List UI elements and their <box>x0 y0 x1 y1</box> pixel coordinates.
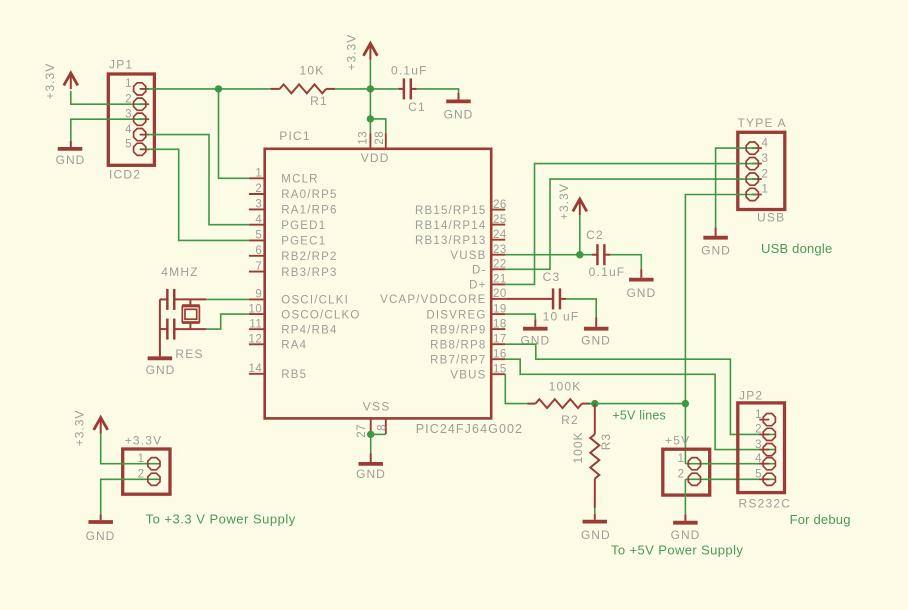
svg-text:26: 26 <box>493 199 507 211</box>
svg-text:ICD2: ICD2 <box>109 167 141 181</box>
svg-text:VSS: VSS <box>363 399 391 413</box>
svg-text:RB14/RP14: RB14/RP14 <box>415 220 487 232</box>
svg-text:1: 1 <box>125 78 132 90</box>
svg-text:24: 24 <box>493 229 507 241</box>
svg-text:2: 2 <box>762 168 769 180</box>
svg-text:JP2: JP2 <box>739 389 763 403</box>
svg-text:GND: GND <box>356 467 386 481</box>
svg-text:11: 11 <box>249 318 262 330</box>
svg-text:GND: GND <box>581 528 611 542</box>
svg-text:27: 27 <box>356 424 368 438</box>
svg-text:RB5: RB5 <box>281 369 307 381</box>
svg-text:16: 16 <box>493 348 507 360</box>
svg-text:14: 14 <box>249 363 263 375</box>
svg-text:100K: 100K <box>571 431 585 463</box>
svg-text:12: 12 <box>249 334 263 346</box>
svg-text:4: 4 <box>762 137 769 149</box>
svg-text:PGEC1: PGEC1 <box>281 236 326 248</box>
svg-text:+3.3V: +3.3V <box>125 434 163 448</box>
svg-text:OSCI/CLKI: OSCI/CLKI <box>281 295 349 307</box>
svg-text:+5V lines: +5V lines <box>612 409 666 423</box>
svg-text:23: 23 <box>493 244 507 256</box>
svg-text:VUSB: VUSB <box>450 250 486 262</box>
svg-text:RS232C: RS232C <box>739 497 792 511</box>
svg-text:C3: C3 <box>543 270 561 284</box>
svg-text:3: 3 <box>762 153 769 165</box>
svg-text:D+: D+ <box>469 280 486 292</box>
svg-text:25: 25 <box>493 214 507 226</box>
svg-text:10: 10 <box>249 303 263 315</box>
svg-text:5: 5 <box>255 230 262 242</box>
svg-text:8: 8 <box>377 424 389 431</box>
svg-text:VCAP/VDDCORE: VCAP/VDDCORE <box>380 294 486 306</box>
svg-text:6: 6 <box>255 245 262 257</box>
svg-text:D-: D- <box>472 265 487 277</box>
svg-text:+3.3V: +3.3V <box>43 63 57 100</box>
svg-text:R3: R3 <box>599 433 613 450</box>
svg-text:28: 28 <box>374 131 386 145</box>
svg-text:4MHZ: 4MHZ <box>161 265 198 279</box>
svg-text:7: 7 <box>255 261 262 273</box>
svg-text:To +5V Power Supply: To +5V Power Supply <box>611 543 743 558</box>
svg-text:MCLR: MCLR <box>281 174 318 186</box>
svg-text:4: 4 <box>255 214 262 226</box>
svg-text:RB7/RP7: RB7/RP7 <box>430 354 486 366</box>
svg-text:1: 1 <box>678 453 685 465</box>
svg-text:100K: 100K <box>549 380 582 394</box>
svg-text:GND: GND <box>86 529 116 543</box>
svg-text:1: 1 <box>255 168 262 180</box>
svg-text:22: 22 <box>493 259 507 271</box>
svg-text:+3.3V: +3.3V <box>345 34 359 71</box>
svg-text:RA1/RP6: RA1/RP6 <box>281 205 337 217</box>
svg-text:PIC1: PIC1 <box>279 129 310 143</box>
svg-text:RA4: RA4 <box>281 340 307 352</box>
svg-text:DISVREG: DISVREG <box>426 309 486 321</box>
svg-text:GND: GND <box>581 334 611 348</box>
svg-text:15: 15 <box>493 363 507 375</box>
svg-text:R1: R1 <box>310 94 328 108</box>
svg-text:21: 21 <box>493 274 507 286</box>
svg-text:9: 9 <box>255 289 262 301</box>
svg-text:GND: GND <box>56 153 86 167</box>
svg-text:RB8/RP8: RB8/RP8 <box>430 339 486 351</box>
svg-text:To +3.3 V Power Supply: To +3.3 V Power Supply <box>146 512 296 527</box>
svg-text:TYPE A: TYPE A <box>738 116 787 130</box>
svg-text:RB13/RP13: RB13/RP13 <box>415 235 487 247</box>
svg-text:RES: RES <box>175 347 203 361</box>
svg-text:PIC24FJ64G002: PIC24FJ64G002 <box>416 422 523 436</box>
svg-text:RP4/RB4: RP4/RB4 <box>281 324 337 336</box>
svg-text:GND: GND <box>701 243 731 257</box>
svg-text:10 uF: 10 uF <box>543 310 580 324</box>
svg-text:3: 3 <box>255 199 262 211</box>
svg-text:RB3/RP3: RB3/RP3 <box>281 267 337 279</box>
svg-text:0.1uF: 0.1uF <box>391 63 428 77</box>
svg-text:GND: GND <box>444 108 474 122</box>
svg-text:RB9/RP9: RB9/RP9 <box>430 324 486 336</box>
svg-text:USB: USB <box>757 211 785 225</box>
svg-text:1: 1 <box>762 184 769 196</box>
svg-text:10K: 10K <box>300 63 325 77</box>
svg-text:RA0/RP5: RA0/RP5 <box>281 189 337 201</box>
svg-text:For debug: For debug <box>790 512 851 527</box>
svg-text:2: 2 <box>255 183 262 195</box>
svg-text:OSCO/CLKO: OSCO/CLKO <box>281 309 360 321</box>
svg-text:GND: GND <box>146 363 176 377</box>
svg-text:VBUS: VBUS <box>450 369 486 381</box>
svg-text:C2: C2 <box>586 228 604 242</box>
svg-text:+3.3V: +3.3V <box>557 183 571 220</box>
svg-text:2: 2 <box>678 469 685 481</box>
svg-text:+5V: +5V <box>665 433 690 447</box>
svg-text:RB2/RP2: RB2/RP2 <box>281 251 337 263</box>
svg-text:JP1: JP1 <box>109 57 133 71</box>
svg-text:RB15/RP15: RB15/RP15 <box>415 205 487 217</box>
svg-text:PGED1: PGED1 <box>281 220 326 232</box>
svg-text:19: 19 <box>493 303 507 315</box>
svg-text:20: 20 <box>493 288 507 300</box>
svg-text:5: 5 <box>125 139 132 151</box>
svg-text:VDD: VDD <box>361 151 390 165</box>
svg-text:+3.3V: +3.3V <box>73 410 87 447</box>
svg-text:4: 4 <box>125 124 132 136</box>
svg-text:USB dongle: USB dongle <box>761 241 832 256</box>
svg-text:GND: GND <box>626 286 656 300</box>
svg-text:18: 18 <box>493 318 507 330</box>
svg-text:0.1uF: 0.1uF <box>589 265 626 279</box>
svg-text:C1: C1 <box>408 100 426 114</box>
svg-text:13: 13 <box>357 131 369 145</box>
svg-text:R2: R2 <box>561 413 579 427</box>
svg-text:GND: GND <box>671 528 701 542</box>
svg-text:17: 17 <box>493 333 507 345</box>
